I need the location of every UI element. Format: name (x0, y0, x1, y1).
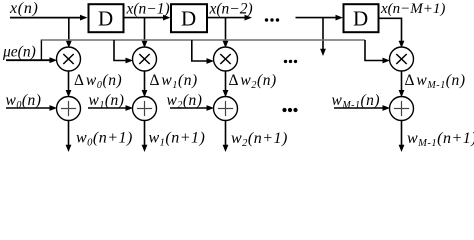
ellipsis: adder row continues (282, 108, 297, 112)
adder A4 (390, 97, 414, 121)
wire: M2 output down into adder A2 (142, 71, 148, 98)
wire: adder A2 output w1(n+1) (142, 120, 148, 152)
wire: ue(n) riser to distribution bus (40, 40, 42, 61)
wire: adder A4 output wM-1(n+1) (399, 120, 405, 152)
wire: bus branch into multiplier M3 (192, 40, 214, 64)
svg-text:Δw2(n): Δw2(n) (229, 72, 277, 91)
wire: D3 output L-path down into multiplier M4 (379, 18, 405, 48)
wire: bus branch into multiplier M2 (114, 40, 133, 63)
wire: M3 output down into adder A3 (223, 71, 229, 98)
ellipsis: delay line continues (265, 18, 279, 21)
svg-text:w2(n+1): w2(n+1) (231, 130, 288, 149)
wire: w1(n) into adder A2 (88, 105, 133, 111)
adder A3 (214, 97, 238, 121)
wire: w2(n) into adder A3 (170, 105, 214, 111)
adder A1 (57, 97, 81, 121)
wire: M4 output down into adder A4 (399, 71, 405, 98)
wire: w0(n) into adder A1 (6, 105, 57, 111)
wire: into delay D3 (296, 15, 344, 21)
svg-text:w1(n+1): w1(n+1) (149, 130, 206, 149)
wire: D1 output to D2 (124, 15, 171, 21)
delay block D3 (344, 4, 379, 32)
wire: x(n-2) tap down into multiplier M3 (223, 18, 229, 48)
multiplier M1 (57, 47, 81, 71)
svg-text:D: D (353, 7, 368, 31)
wire: dangling tap arrow (continuation) (320, 18, 326, 56)
svg-text:Δw0(n): Δw0(n) (74, 72, 122, 91)
svg-text:x(n): x(n) (9, 0, 39, 17)
svg-text:x(n−M+1): x(n−M+1) (380, 1, 445, 17)
wire: x(n) tap down into multiplier M1 (66, 18, 72, 48)
svg-text:D: D (181, 7, 196, 31)
svg-text:wM-1(n+1): wM-1(n+1) (407, 130, 474, 149)
delay block D1 (89, 4, 124, 32)
svg-text:x(n−2): x(n−2) (209, 1, 253, 18)
wire: x(n-1) tap down into multiplier M2 (142, 18, 148, 48)
wire: x(n) input into delay D1 (10, 15, 88, 21)
svg-text:D: D (98, 7, 113, 31)
multiplier M3 (214, 47, 238, 71)
wire: adder A3 output w2(n+1) (223, 120, 229, 152)
wire: D2 output toward ellipsis (207, 15, 252, 21)
svg-text:μe(n): μe(n) (2, 44, 36, 61)
wire: bus end into multiplier M4 (365, 40, 390, 63)
wire: ue(n) distribution bus (41, 39, 365, 41)
adder A2 (133, 97, 157, 121)
svg-text:Δw1(n): Δw1(n) (150, 72, 198, 91)
delay block D2 (171, 4, 207, 32)
wire: adder A1 output w0(n+1) (66, 120, 72, 152)
wire: ue(n) into multiplier M1 (6, 57, 57, 63)
wire: M1 output down into adder A1 (66, 71, 72, 98)
wire: wM-1(n) into adder A4 (334, 105, 390, 111)
svg-text:w0(n+1): w0(n+1) (76, 130, 133, 149)
multiplier M4 (390, 47, 414, 71)
multiplier M2 (133, 47, 157, 71)
ellipsis: multiplier row continues (284, 60, 297, 63)
svg-text:ΔwM-1(n): ΔwM-1(n) (405, 72, 466, 91)
